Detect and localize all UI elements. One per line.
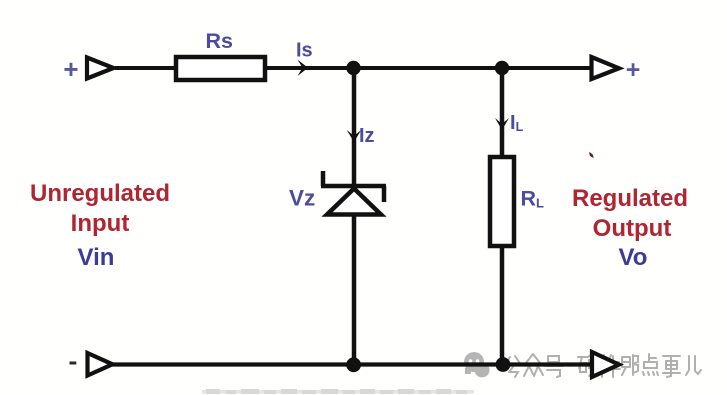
- resistor Rs: [176, 57, 265, 80]
- 那: [622, 355, 638, 375]
- wire: zener branch upper: [352, 66, 357, 187]
- zener diode Vz: [321, 171, 386, 215]
- wire: zener branch lower: [352, 214, 357, 366]
- 点: [643, 354, 658, 375]
- svg-text:Iz: Iz: [359, 125, 375, 147]
- junction node bottom-left: [346, 357, 361, 372]
- arrow IL: [495, 118, 509, 130]
- svg-text:+: +: [626, 56, 641, 84]
- svg-text:Regulated: Regulated: [572, 185, 688, 212]
- wire: top horizontal: [115, 66, 592, 70]
- svg-text:Rs: Rs: [206, 29, 234, 53]
- 公: [505, 356, 521, 377]
- 众: [524, 354, 543, 376]
- wire: bottom horizontal: [112, 362, 592, 366]
- junction node bottom-right: [496, 357, 511, 372]
- svg-text:Vz: Vz: [289, 186, 315, 211]
- watermark text 公众号·硬件那点事儿 (simplified strokes): [505, 354, 701, 377]
- junction node top-right: [495, 61, 509, 75]
- 事: [663, 356, 680, 377]
- svg-text:Input: Input: [71, 210, 130, 237]
- junction node top-left: [346, 61, 360, 75]
- red speck: [589, 152, 594, 158]
- interpunct: [568, 363, 572, 367]
- 件: [600, 355, 620, 377]
- watermark icon (grey bubbles): [464, 352, 490, 378]
- label - (input): [70, 362, 77, 365]
- input terminal +: [87, 58, 114, 79]
- 号: [545, 356, 563, 377]
- wire: load branch lower: [500, 246, 505, 366]
- svg-text:+: +: [63, 54, 78, 84]
- input terminal -: [88, 353, 113, 376]
- resistor RL: [490, 157, 514, 246]
- arrow Is: [298, 60, 309, 76]
- svg-text:Output: Output: [593, 215, 672, 242]
- bottom cut-off caption remnants: [202, 389, 474, 394]
- output terminal -: [592, 352, 619, 377]
- 硬: [578, 356, 598, 376]
- svg-text:Vo: Vo: [619, 244, 648, 271]
- svg-text:Unregulated: Unregulated: [30, 180, 170, 207]
- output terminal +: [592, 57, 620, 79]
- wire: load branch upper: [500, 66, 505, 158]
- 儿: [686, 356, 701, 375]
- svg-text:Is: Is: [296, 40, 313, 62]
- svg-text:Vin: Vin: [78, 244, 115, 271]
- arrow Iz: [347, 130, 361, 142]
